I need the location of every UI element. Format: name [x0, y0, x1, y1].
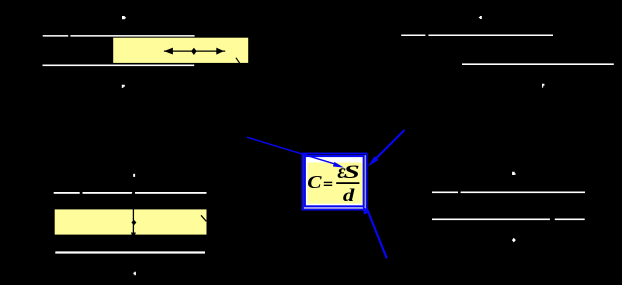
formula fraction bar — [336, 182, 359, 184]
glyph fragment BL above — [133, 174, 135, 177]
capacitor TL: top plate segment 2 — [70, 35, 194, 37]
capacitor BL: dielectric slab — [55, 209, 207, 234]
glyph fragment TL above — [122, 16, 126, 19]
formula box yellow panel — [308, 163, 363, 204]
capacitor TL: top plate segment 1 — [43, 35, 68, 37]
capacitor TL: dielectric slab — [113, 38, 248, 63]
glyph fragment BR below (diamond) — [512, 238, 516, 243]
glyph fragment BR above — [512, 172, 516, 175]
capacitor BR: top plate segment 2 — [461, 192, 585, 194]
capacitor BL: top plate segment 1 — [54, 192, 80, 194]
arrow 2: blue connector from TR to formula box — [368, 130, 405, 167]
arrow 1: blue connector from TL to formula box — [247, 137, 344, 167]
svg-text:d: d — [343, 186, 355, 205]
capacitor BL: bottom plate — [55, 251, 205, 253]
capacitor TR: top plate segment 2 — [428, 35, 553, 37]
tick BL: black leader tick on slab — [201, 215, 206, 221]
svg-text:S: S — [344, 162, 360, 182]
capacitor TR: bottom plate — [462, 63, 614, 65]
glyph fragment BL below — [133, 272, 136, 275]
arrow BL: vertical d-arrow — [131, 191, 136, 238]
capacitor BL: top plate segment 2 — [83, 192, 133, 194]
capacitor BL: top plate segment 3 — [135, 192, 207, 194]
glyph fragment TR below — [542, 84, 544, 88]
tick TL: black leader tick on slab — [236, 58, 240, 64]
formula equals sign — [324, 182, 332, 183]
arrow 3: blue connector from BR to formula box — [363, 206, 387, 259]
formula box white card — [304, 155, 366, 209]
formula box inner blue frame — [305, 156, 364, 206]
glyph fragment TR above — [479, 16, 482, 19]
capacitor BR: top plate segment 1 — [432, 192, 458, 194]
capacitor TL: bottom plate — [43, 65, 195, 67]
capacitor TR: top plate segment 1 — [401, 35, 425, 37]
capacitor BR: bottom plate segment 2 — [555, 219, 585, 221]
glyph fragment TL below — [122, 85, 125, 88]
arrow TL: double-headed slide arrow — [164, 48, 225, 54]
formula box outer blue frame — [302, 154, 366, 210]
capacitor BR: bottom plate segment 1 — [432, 219, 550, 221]
svg-text:C: C — [307, 173, 322, 193]
